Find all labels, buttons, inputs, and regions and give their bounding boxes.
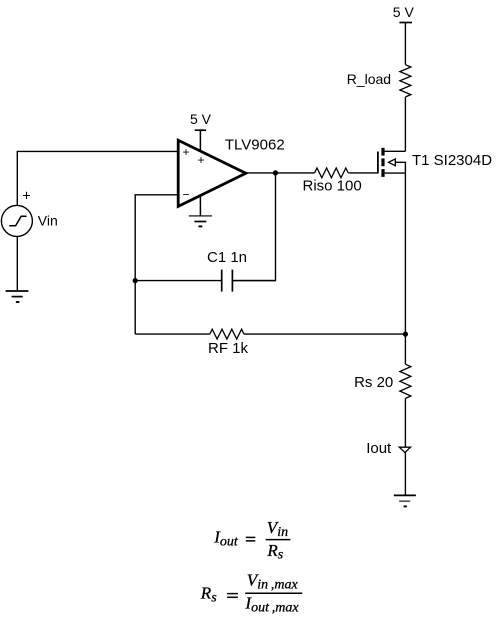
svg-text:Iout ,max: Iout ,max — [244, 594, 299, 616]
svg-text:+: + — [22, 188, 30, 204]
svg-text:+: + — [198, 153, 205, 167]
svg-text:T1 SI2304D: T1 SI2304D — [412, 152, 492, 169]
svg-text:C1 1n: C1 1n — [207, 249, 247, 266]
svg-text:Rs 20: Rs 20 — [354, 374, 393, 391]
svg-text:Vin: Vin — [38, 212, 58, 228]
svg-text:Iout: Iout — [213, 528, 239, 550]
svg-text:Rs: Rs — [200, 584, 217, 606]
svg-text:−: − — [183, 188, 190, 202]
svg-text:RF 1k: RF 1k — [208, 340, 249, 357]
svg-text:Riso 100: Riso 100 — [303, 178, 362, 195]
svg-text:Vin ,max: Vin ,max — [247, 571, 299, 593]
svg-text:TLV9062: TLV9062 — [225, 137, 285, 154]
svg-text:R_load: R_load — [347, 71, 391, 87]
svg-text:Iout: Iout — [366, 440, 392, 457]
svg-text:+: + — [183, 145, 190, 159]
svg-text:5 V: 5 V — [190, 111, 212, 127]
svg-text:Rs: Rs — [266, 541, 283, 563]
svg-text:5 V: 5 V — [393, 4, 415, 20]
svg-text:Vin: Vin — [267, 518, 288, 540]
